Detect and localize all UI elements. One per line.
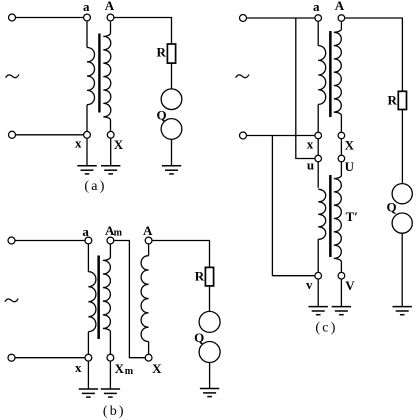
svg-text:m: m: [125, 366, 134, 377]
wire resistor to sphere gap (c): [401, 110, 403, 184]
HV winding (b): [141, 256, 149, 342]
transformer T1 core (c): [329, 31, 332, 117]
svg-text:u: u: [307, 158, 314, 173]
sphere gap upper sphere (a): [161, 89, 182, 110]
svg-text:Q: Q: [194, 330, 204, 345]
svg-text:X: X: [152, 361, 162, 376]
svg-text:U: U: [345, 159, 355, 174]
svg-text:x: x: [75, 135, 82, 150]
wire v to ground (c): [317, 279, 319, 306]
node u (c): [315, 155, 322, 162]
node v (c): [315, 272, 322, 279]
AC source terminal (a) bottom: [9, 131, 16, 138]
wire V to ground (c): [340, 279, 342, 306]
svg-text:m: m: [114, 227, 123, 238]
wire A to resistor (a): [114, 18, 172, 45]
ground under x (b): [79, 388, 98, 390]
svg-text:Q: Q: [156, 107, 166, 122]
wire (a) bottom rail: [16, 134, 84, 136]
wire x to ground (b): [87, 361, 89, 388]
ground under X (a): [101, 165, 120, 167]
svg-text:X: X: [115, 361, 125, 376]
wire A to HV coil (b): [148, 244, 150, 256]
wire Xm to ground (b): [109, 361, 111, 388]
node A (a): [107, 14, 114, 21]
sphere gap upper sphere (b): [199, 311, 220, 332]
wire x to u (c): [317, 139, 319, 155]
transformer core (a): [98, 34, 100, 113]
sphere gap lower sphere (a): [161, 119, 182, 140]
resistor R (b): [205, 267, 213, 286]
svg-text:a: a: [83, 0, 90, 14]
regulating winding (b): [103, 244, 111, 354]
svg-text:A: A: [105, 0, 115, 13]
transformer secondary winding (a): [103, 21, 111, 131]
transformer T2 primary winding (c): [318, 189, 326, 239]
node A (b): [145, 237, 152, 244]
svg-text:x: x: [75, 360, 82, 375]
svg-text:X: X: [345, 138, 355, 153]
node X (c): [338, 132, 345, 139]
svg-text:x: x: [307, 137, 314, 152]
wire top rail branch to u (c): [296, 18, 315, 159]
svg-text:A: A: [143, 223, 153, 238]
sphere gap lower sphere (b): [199, 342, 220, 363]
ground under x (a): [77, 165, 96, 167]
transformer primary winding (b): [88, 272, 96, 332]
wire bottom rail branch to v (c): [272, 136, 315, 276]
transformer T2 core (c): [329, 175, 332, 257]
node a (c): [315, 15, 322, 22]
node X (a): [107, 131, 114, 138]
node X (b): [145, 354, 152, 361]
svg-text:R: R: [195, 269, 205, 284]
AC source terminal (b) top: [8, 237, 15, 244]
wire u to T2 primary (c): [317, 162, 319, 188]
transformer core (b): [97, 256, 100, 340]
svg-text:v: v: [306, 277, 313, 292]
AC source terminal (b) bottom: [8, 354, 15, 361]
wire a to primary coil (b): [87, 244, 89, 272]
svg-text:R: R: [157, 44, 167, 59]
transformer T2 secondary winding (c): [334, 162, 342, 273]
wire sphere gap to ground (c): [401, 233, 403, 306]
wire primary coil to node x (a): [86, 105, 88, 132]
svg-text:X: X: [114, 137, 124, 152]
wire A to resistor (b): [152, 241, 210, 268]
ground under Xm (b): [101, 388, 120, 390]
wire (a) top rail: [16, 17, 84, 19]
transformer T1 primary winding (c): [318, 46, 326, 105]
AC source terminal (a) top: [9, 14, 16, 21]
ground under sphere gap (a): [162, 165, 181, 167]
node x (b): [85, 354, 92, 361]
wire resistor to sphere gap (a): [171, 63, 173, 89]
wire primary coil to node x (b): [87, 332, 89, 355]
wire (b) bottom rail: [15, 357, 85, 359]
node Am (b): [107, 237, 114, 244]
wire (c) bottom rail: [247, 135, 315, 137]
sphere gap lower sphere (c): [392, 213, 412, 233]
wire HV coil to node X (b): [148, 342, 150, 355]
transformer primary winding (a): [87, 48, 95, 105]
wire sphere gap to ground (a): [171, 139, 173, 165]
wire a to T1 primary (c): [317, 21, 319, 45]
wire X to ground (a): [110, 138, 112, 165]
AC source terminal (c) bottom: [240, 132, 247, 139]
svg-text:R: R: [388, 93, 398, 108]
wire (b) top rail: [15, 240, 85, 242]
ground under v (c): [309, 306, 328, 308]
wire sphere gap to ground (b): [209, 363, 211, 389]
wire a to primary coil (a): [86, 21, 88, 48]
svg-text:Q: Q: [387, 200, 397, 215]
node Xm (b): [107, 354, 114, 361]
node x (c): [315, 132, 322, 139]
node x (a): [84, 131, 91, 138]
wire A to resistor (c): [345, 18, 403, 91]
node a (b): [85, 237, 92, 244]
svg-text:T′: T′: [346, 209, 358, 224]
ground under sphere gap (b): [200, 388, 219, 390]
wire X to U (c): [340, 139, 342, 155]
ground under V (c): [332, 306, 351, 308]
svg-text:a: a: [313, 0, 320, 14]
svg-text:a: a: [82, 224, 89, 239]
resistor R (a): [167, 44, 175, 63]
wire T1 primary to x (c): [317, 104, 319, 132]
svg-text:V: V: [345, 278, 355, 293]
resistor R (c): [398, 91, 406, 109]
node V (c): [338, 272, 345, 279]
wire (c) top rail: [247, 17, 315, 19]
wire T2 primary to v (c): [317, 239, 319, 272]
svg-text:A: A: [335, 0, 345, 13]
node A (c): [338, 15, 345, 22]
svg-text:(a): (a): [84, 179, 106, 194]
AC source symbol ~ (c): [236, 75, 249, 78]
node U (c): [338, 155, 345, 162]
AC source terminal (c) top: [240, 15, 247, 22]
AC source symbol ~ (b): [5, 299, 18, 302]
node a (a): [84, 14, 91, 21]
transformer T1 secondary winding (c): [334, 21, 342, 132]
ground under sphere gap (c): [393, 306, 412, 308]
AC source symbol ~ (a): [6, 75, 19, 78]
wire Am to X (b): [114, 241, 145, 358]
wire x to ground (a): [86, 138, 88, 165]
sphere gap upper sphere (c): [392, 184, 412, 204]
svg-text:(b): (b): [103, 404, 126, 419]
svg-text:(c): (c): [315, 321, 337, 336]
wire resistor to sphere gap (b): [209, 286, 211, 312]
